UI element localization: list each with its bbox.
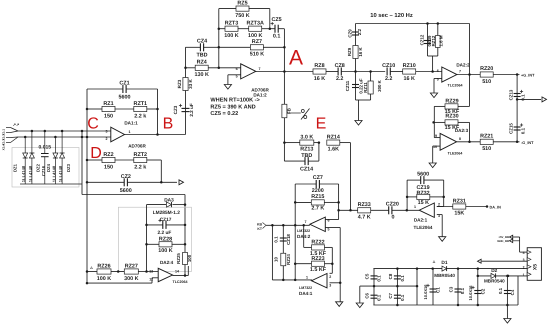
- svg-text:C6: C6: [365, 292, 370, 298]
- svg-text:C: C: [87, 116, 99, 133]
- svg-text:DA2:4: DA2:4: [160, 260, 174, 265]
- svg-text:DZ3: DZ3: [66, 163, 71, 172]
- group box diodes: [12, 148, 79, 188]
- wire B node column RZ3 CZ3: [185, 47, 187, 134]
- resistor RZ22 1.5KF: [304, 246, 312, 248]
- svg-text:150: 150: [104, 114, 113, 120]
- svg-text:0.1: 0.1: [377, 294, 382, 301]
- op-amp DA4:2 mirrored: [310, 217, 326, 231]
- op-amp DA1:2: [241, 64, 256, 79]
- svg-text:10.0X16: 10.0X16: [423, 284, 428, 300]
- svg-text:DZ2: DZ2: [36, 163, 41, 172]
- svg-text:DA_IN: DA_IN: [490, 206, 502, 210]
- capacitor C6 0.1: [373, 286, 375, 305]
- wire RZ14 down to RZ33 row: [350, 143, 352, 211]
- capacitor CZ8 2.2: [337, 68, 339, 76]
- svg-text:10 sec – 120 Hz: 10 sec – 120 Hz: [370, 12, 413, 19]
- svg-text:DA3: DA3: [164, 197, 174, 203]
- svg-text:6: 6: [437, 69, 439, 73]
- wire arrow branch: [517, 98, 541, 100]
- resistor RZ2 150: [87, 159, 102, 161]
- wire DA2:4 output: [173, 275, 189, 277]
- wire RZ5 right down: [269, 9, 271, 29]
- svg-text:DZ4: DZ4: [46, 163, 51, 172]
- svg-text:0.1: 0.1: [400, 275, 405, 282]
- svg-text:RZ3: RZ3: [177, 79, 182, 88]
- wire DA2:1 pin3 to ground: [437, 214, 442, 216]
- svg-text:3.0 K: 3.0 K: [300, 135, 313, 141]
- svg-text:2.2 k: 2.2 k: [134, 114, 146, 120]
- wire input- to DA1:1 pin2: [18, 136, 111, 138]
- resistor RZT3 100K: [219, 28, 225, 30]
- svg-text:510 K: 510 K: [250, 52, 264, 58]
- svg-text:3: 3: [329, 284, 331, 288]
- resistor RZ31 15K: [453, 204, 466, 209]
- reference DA3 LM285M-1.2: [147, 204, 167, 206]
- svg-text:RZ31: RZ31: [453, 198, 466, 204]
- svg-text:CZ13: CZ13: [509, 89, 514, 100]
- svg-text:MBR0540: MBR0540: [434, 273, 455, 278]
- svg-text:5600: 5600: [119, 95, 131, 101]
- capacitor CZ11 0.22uF: [355, 72, 357, 101]
- svg-text:150: 150: [104, 165, 113, 171]
- svg-text:3: 3: [523, 258, 525, 262]
- op-amp DA4:1 mirrored: [312, 274, 328, 288]
- wire plus rail D1 row: [417, 268, 527, 270]
- wire left drop to DA4:1 output row: [271, 225, 273, 280]
- wire KB to DA4:2 apex: [266, 224, 310, 226]
- resistor RZ33 4.7K: [358, 208, 371, 213]
- wire RZ29 left down to pin9: [433, 106, 435, 137]
- svg-text:+G_INT: +G_INT: [521, 74, 535, 78]
- wire C4 to X5 pin1 riser: [517, 276, 519, 305]
- svg-text:E: E: [316, 116, 327, 133]
- resistor RZ14 1.6K: [327, 140, 340, 145]
- svg-text:RZ26: RZ26: [97, 264, 110, 270]
- svg-text:2.2 uF: 2.2 uF: [157, 230, 171, 236]
- wire CZ12 RZ12 tie: [428, 55, 438, 57]
- svg-text:2200: 2200: [312, 188, 324, 194]
- svg-text:CZ11: CZ11: [345, 80, 350, 91]
- svg-text:A: A: [289, 47, 303, 70]
- svg-text:0: 0: [392, 215, 395, 221]
- svg-text:16 K: 16 K: [404, 76, 415, 82]
- group box DA3: [118, 207, 191, 271]
- svg-text:1.6 M: 1.6 M: [438, 35, 443, 46]
- svg-text:10: 10: [433, 145, 437, 149]
- capacitor CZ2 5600: [87, 181, 124, 183]
- svg-text:100 K: 100 K: [248, 33, 262, 39]
- capacitor CZ4 TBD: [186, 46, 201, 48]
- diode DZ3: [61, 131, 63, 184]
- svg-text:300 K: 300 K: [377, 79, 382, 92]
- svg-text:DA4:1: DA4:1: [299, 291, 313, 296]
- resistor RZT3A 100K: [249, 26, 262, 31]
- resistor RZ3 33K: [183, 78, 188, 91]
- wire CZ5 to output node A: [283, 29, 285, 161]
- svg-text:TLC2064: TLC2064: [173, 280, 188, 284]
- capacitor CZ14: [284, 160, 304, 162]
- capacitor CZ20 0: [388, 206, 390, 214]
- svg-text:△: △: [432, 260, 436, 264]
- net tag +5V: [510, 235, 513, 239]
- svg-text:RZ20: RZ20: [480, 66, 493, 72]
- ground DA2:2: [430, 93, 437, 98]
- resistor RZ1 150: [87, 108, 102, 110]
- wire DA4:1 pin2: [330, 272, 333, 274]
- ground cap bank left: [359, 286, 361, 303]
- ground band-pass: [355, 121, 362, 126]
- svg-text:RZT3: RZT3: [225, 20, 238, 26]
- svg-text:RZ8: RZ8: [314, 63, 324, 69]
- wire input+ to DA1:1 pin3: [18, 130, 111, 132]
- svg-text:7: 7: [259, 67, 261, 71]
- svg-text:RZ9: RZ9: [347, 47, 352, 56]
- svg-text:RZ4: RZ4: [197, 60, 207, 66]
- svg-text:6: 6: [236, 67, 238, 71]
- svg-text:CZ5: CZ5: [272, 17, 282, 23]
- svg-text:TBD: TBD: [196, 53, 207, 59]
- svg-text:100: 100: [187, 254, 192, 262]
- wire DA1:2 plus input to ground: [228, 74, 241, 76]
- svg-text:RZ27: RZ27: [125, 264, 138, 270]
- resistor RZ11 300K: [370, 72, 372, 101]
- svg-text:TLE2064: TLE2064: [414, 225, 433, 230]
- resistor RZ25 100: [183, 253, 188, 265]
- svg-text:2.2 uF: 2.2 uF: [189, 103, 194, 116]
- capacitor C5 0.1: [373, 269, 375, 287]
- svg-text:0.1: 0.1: [498, 287, 503, 294]
- wire DA2:2 output row: [457, 74, 481, 76]
- svg-text:RZT1: RZT1: [134, 101, 147, 107]
- wire DA4:2 pin5 down: [325, 227, 340, 229]
- svg-text:510: 510: [482, 146, 491, 152]
- net tag GND: [510, 239, 513, 243]
- wire top rail drop: [469, 24, 471, 75]
- wire DA2:1 pin2 to RZ31: [437, 206, 453, 208]
- capacitor CZ1 5600: [87, 88, 123, 90]
- svg-text:RZT2: RZT2: [134, 152, 147, 158]
- wire feedback node down to DA3 block: [81, 131, 83, 195]
- svg-text:RZ5: RZ5: [237, 0, 247, 6]
- op-amp DA2:4: [158, 268, 172, 281]
- svg-text:LM285M-1.2: LM285M-1.2: [153, 210, 181, 216]
- resistor RZ29 15KF: [445, 104, 458, 109]
- net arrow right top: [542, 97, 547, 102]
- svg-text:15 K: 15 K: [418, 200, 429, 206]
- svg-text:RZ1: RZ1: [103, 101, 113, 107]
- svg-text:1LL4148: 1LL4148: [58, 165, 63, 182]
- svg-text:C2: C2: [480, 288, 485, 294]
- resistor RZ30 15KF: [434, 121, 446, 123]
- capacitor C8 0.1: [396, 269, 398, 287]
- svg-text:4: 4: [523, 251, 525, 255]
- svg-text:10.0X16: 10.0X16: [468, 285, 473, 301]
- capacitor C2 10.0X16: [477, 276, 479, 305]
- svg-text:CZ7: CZ7: [313, 175, 323, 181]
- wire D2 row: [477, 269, 479, 276]
- svg-text:RZ30: RZ30: [445, 113, 458, 119]
- resistor RZ13 3.0K TBD: [284, 142, 299, 144]
- net arrow right: [179, 180, 184, 185]
- op-amp DA2:2: [442, 67, 457, 82]
- capacitor C7 0.1: [396, 286, 398, 305]
- capacitor CZ17 2.2uF: [147, 224, 163, 226]
- wire diode bottom rail: [20, 183, 82, 185]
- svg-text:RZ14: RZ14: [327, 135, 340, 141]
- svg-text:RZ7: RZ7: [252, 39, 262, 45]
- svg-text:RZ25: RZ25: [176, 253, 181, 264]
- svg-text:9: 9: [435, 134, 437, 138]
- ground DA2:1: [439, 237, 446, 242]
- svg-text:D1: D1: [441, 260, 447, 266]
- svg-text:RZ11: RZ11: [363, 82, 368, 93]
- wire RZ29 feedback: [469, 75, 471, 107]
- svg-text:CZ18: CZ18: [286, 234, 291, 245]
- wire CZ19 RZ32 left vertical: [406, 180, 408, 210]
- svg-text:X1:4: X1:4: [2, 144, 6, 151]
- capacitor C3 0.1: [457, 269, 459, 305]
- svg-text:DA1:1: DA1:1: [124, 121, 138, 126]
- svg-text:5: 5: [328, 228, 330, 232]
- svg-text:X5: X5: [533, 264, 539, 270]
- resistor RZ4 130K: [186, 67, 196, 69]
- svg-text:DA2:3: DA2:3: [455, 128, 469, 133]
- svg-text:0.1: 0.1: [273, 34, 281, 40]
- svg-text:0.1: 0.1: [521, 127, 526, 134]
- svg-text:100 K: 100 K: [97, 276, 111, 282]
- svg-text:10: 10: [273, 257, 278, 262]
- svg-text:1.5 KF: 1.5 KF: [310, 267, 327, 273]
- svg-text:4.7 K: 4.7 K: [358, 215, 371, 221]
- svg-text:C1: C1: [436, 287, 441, 293]
- svg-text:△: △: [89, 266, 93, 270]
- svg-text:1LL4148: 1LL4148: [51, 165, 56, 182]
- resistor RZ21 510: [480, 139, 493, 144]
- svg-text:2: 2: [329, 275, 331, 279]
- resistor RZ7 510K: [219, 46, 251, 48]
- wire DA3 left vertical: [146, 205, 148, 272]
- op-amp DA1:1: [111, 127, 125, 142]
- wire RZ22 right down: [331, 247, 333, 273]
- svg-text:2.2: 2.2: [336, 76, 344, 82]
- resistor RZ9 16K: [353, 46, 358, 59]
- wire DA2:3 output row: [457, 141, 481, 143]
- svg-text:300 K: 300 K: [124, 276, 138, 282]
- capacitor CZ12 0.039: [427, 24, 429, 57]
- svg-text:AD706R: AD706R: [128, 144, 146, 149]
- resistor RZ28 100K: [147, 243, 160, 245]
- resistor RZ15 2.7K: [295, 201, 311, 203]
- svg-text:RZ12: RZ12: [431, 35, 436, 46]
- ground DA2:3: [429, 163, 436, 168]
- wire RZ24 CZ18 column: [282, 225, 284, 280]
- svg-text:DA2:1: DA2:1: [414, 218, 428, 223]
- resistor RZ27 300K: [118, 271, 125, 273]
- wire DA2:3 pin10 to ground: [433, 145, 440, 147]
- svg-text:15K: 15K: [454, 211, 464, 217]
- svg-text:33 K: 33 K: [188, 78, 193, 88]
- svg-text:16 K: 16 K: [358, 47, 363, 57]
- resistor RZ26 100K: [87, 271, 98, 273]
- svg-text:16 K: 16 K: [314, 76, 325, 82]
- wire bottom rail to pin12: [87, 282, 152, 284]
- svg-text:1LL4148: 1LL4148: [28, 165, 33, 182]
- resistor RZ8 16K: [313, 69, 326, 74]
- wire RZT2 down to CZ2 row: [160, 160, 162, 182]
- svg-text:RZ33: RZ33: [358, 202, 371, 208]
- svg-text:CZ9: CZ9: [348, 29, 353, 38]
- svg-text:C5: C5: [365, 273, 370, 279]
- svg-text:1: 1: [414, 205, 416, 209]
- wire cap bank rails: [373, 268, 417, 270]
- svg-text:2.2 k: 2.2 k: [134, 165, 146, 171]
- diode DZ2: [31, 131, 33, 184]
- svg-text:2.2: 2.2: [357, 28, 362, 35]
- svg-text:100 K: 100 K: [224, 33, 238, 39]
- svg-text:510: 510: [482, 79, 491, 85]
- svg-text:C3: C3: [449, 286, 454, 292]
- svg-text:2: 2: [106, 137, 108, 141]
- svg-text:7: 7: [459, 70, 461, 74]
- wire DA4:2 pin6 feedback: [325, 219, 338, 221]
- svg-text:RZ23: RZ23: [311, 256, 324, 262]
- svg-text:RZ2: RZ2: [103, 152, 113, 158]
- svg-text:1.6K: 1.6K: [328, 146, 339, 152]
- svg-text:1: 1: [306, 276, 308, 280]
- wire DA1:1 output to node B: [125, 134, 186, 136]
- capacitor CZ3 2.2uF: [182, 107, 190, 109]
- svg-text:0.1: 0.1: [377, 275, 382, 282]
- wire RZ30 right to DA2:3 output: [469, 122, 471, 141]
- ground DA1:2: [224, 85, 231, 90]
- resistor RZT1 2.2k: [134, 106, 147, 111]
- svg-text:RZ22: RZ22: [311, 240, 324, 246]
- svg-text:CZ1: CZ1: [119, 81, 129, 87]
- svg-text:0.1: 0.1: [273, 236, 278, 243]
- resistor RZ23 1.5KF: [295, 263, 311, 265]
- wire RZ33 row: [339, 209, 358, 211]
- wire top rail: [356, 23, 470, 25]
- svg-text:2.2: 2.2: [385, 76, 393, 82]
- svg-text:CZ8: CZ8: [335, 63, 345, 69]
- wire RZT1 to output node: [157, 89, 159, 135]
- ground DA4: [336, 302, 343, 307]
- svg-text:0.1: 0.1: [400, 294, 405, 301]
- wire RZ22 left up to output: [303, 225, 305, 247]
- svg-text:RZ5 = 390 K AND: RZ5 = 390 K AND: [210, 104, 255, 110]
- resistor RZ10 16K: [403, 69, 416, 74]
- svg-text:130 K: 130 K: [195, 72, 209, 78]
- connector X1 pin slants: [11, 128, 19, 132]
- svg-text:0.1: 0.1: [460, 287, 465, 294]
- svg-text:RZ21: RZ21: [480, 134, 493, 140]
- wire RZ25 bottom to output: [184, 265, 186, 276]
- wire CZ13 CZ15 column: [516, 75, 518, 142]
- svg-text:C4: C4: [510, 289, 515, 295]
- op-amp DA2:1 mirrored: [419, 203, 434, 217]
- svg-text:B: B: [163, 116, 174, 133]
- svg-text:CZ15: CZ15: [509, 123, 514, 134]
- op-amp DA2:3: [440, 133, 457, 150]
- svg-text:CZ5 = 0.22: CZ5 = 0.22: [210, 111, 238, 117]
- svg-text:100 K: 100 K: [158, 248, 172, 254]
- connector X5: [527, 248, 541, 281]
- capacitor CZ9 2.2: [352, 31, 359, 33]
- wire X5 pin4 to tags: [520, 251, 528, 253]
- svg-text:14: 14: [175, 270, 179, 274]
- wire CZ7 block left vertical: [294, 184, 296, 280]
- svg-text:DZ1: DZ1: [13, 163, 18, 172]
- svg-text:RZ10: RZ10: [403, 63, 416, 69]
- ground bottom right: [506, 305, 508, 319]
- svg-text:CZ10: CZ10: [382, 63, 395, 69]
- svg-text:WHEN RT=100K ->: WHEN RT=100K ->: [210, 98, 260, 104]
- svg-text:TBD: TBD: [301, 153, 312, 159]
- wire CZ9 RZ9 column: [355, 24, 357, 72]
- svg-text:5600: 5600: [417, 171, 429, 177]
- resistor RZT2 2.2k: [134, 157, 147, 162]
- svg-text:D: D: [90, 145, 102, 162]
- resistor FB: [282, 104, 287, 118]
- capacitor CZ13 0.1: [514, 93, 521, 95]
- svg-text:3: 3: [106, 129, 108, 133]
- svg-text:MBR0540: MBR0540: [484, 279, 505, 284]
- svg-text:D2: D2: [491, 268, 497, 274]
- resistor RZ24 10: [281, 253, 286, 266]
- svg-text:RZ15: RZ15: [311, 194, 324, 200]
- svg-text:RZT3A: RZT3A: [247, 20, 264, 26]
- svg-text:1: 1: [129, 130, 131, 134]
- capacitor CZ5 0.1: [274, 25, 276, 33]
- svg-text:8: 8: [459, 137, 461, 141]
- capacitor CZ15 0.1: [514, 126, 521, 128]
- wire bottom rail right: [433, 304, 518, 306]
- jumper: [287, 112, 301, 114]
- net tag DA_IN: [486, 205, 489, 208]
- resistor RZ20 510: [480, 72, 493, 77]
- capacitor C4 0.1: [506, 276, 508, 305]
- svg-text:-G_INT: -G_INT: [521, 141, 534, 145]
- svg-text:2.7 K: 2.7 K: [311, 206, 324, 212]
- wire DA1:2 output row: [256, 71, 313, 73]
- svg-text:CZ4: CZ4: [197, 39, 207, 45]
- svg-text:GND_BB: GND_BB: [497, 239, 509, 243]
- capacitor C1 10.0X16: [432, 269, 434, 305]
- svg-text:RZ13: RZ13: [300, 146, 313, 152]
- svg-text:2: 2: [438, 203, 440, 207]
- wire trunk vertical: [218, 9, 220, 68]
- svg-text:750 K: 750 K: [235, 13, 249, 19]
- resistor RZ32 15K: [407, 196, 417, 198]
- svg-text:1: 1: [523, 273, 525, 277]
- wire feedback vertical left: [86, 89, 88, 283]
- svg-text:2: 2: [523, 265, 525, 269]
- svg-text:CZ14: CZ14: [300, 167, 313, 173]
- svg-text:CZ12: CZ12: [419, 34, 424, 45]
- svg-text:RZ28: RZ28: [159, 236, 172, 242]
- svg-text:CZ3: CZ3: [173, 105, 178, 114]
- capacitor CZ18 0.1: [280, 237, 287, 239]
- capacitor CZ7 2200: [295, 183, 316, 185]
- svg-text:RZ32: RZ32: [417, 191, 430, 197]
- svg-text:↗↗: ↗↗: [13, 122, 20, 127]
- capacitor CZ19 5600: [407, 179, 421, 181]
- wire CZ7 block right vertical: [338, 184, 340, 220]
- svg-text:LM7322: LM7322: [299, 286, 312, 290]
- wire DA4:1 pin3: [330, 282, 341, 284]
- svg-text:DA2:2: DA2:2: [456, 63, 470, 68]
